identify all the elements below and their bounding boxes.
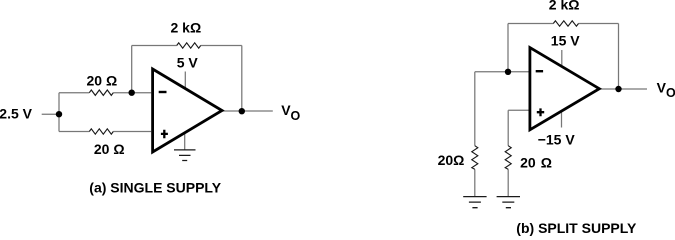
svg-text:O: O <box>666 86 675 100</box>
op-amp U2 triangle <box>530 48 599 130</box>
wire feedback left vertical <box>131 46 133 93</box>
op-amp U1 triangle <box>153 69 222 152</box>
op-amp U1 plus sign <box>161 130 168 139</box>
svg-text:20Ω: 20Ω <box>438 152 465 168</box>
svg-text:2.5 V: 2.5 V <box>0 105 33 121</box>
wire feedback top right <box>201 45 242 47</box>
wire -15V stem <box>561 111 563 128</box>
wire output to VO right circuit <box>599 88 647 90</box>
svg-text:20 Ω: 20 Ω <box>87 73 118 89</box>
svg-text:(a) SINGLE SUPPLY: (a) SINGLE SUPPLY <box>89 179 221 195</box>
node inverting input left circuit <box>129 90 135 96</box>
wire inverting input right circuit <box>475 71 529 73</box>
ground below R4 <box>497 197 520 208</box>
wire R3 vertical top <box>474 72 476 146</box>
wire R3 bottom to ground <box>474 169 476 196</box>
wire feedback left vertical right circuit <box>507 24 509 72</box>
resistor 20ohm bottom left <box>89 129 113 134</box>
wire input branch vertical <box>58 93 60 132</box>
wire R2 to noninverting input <box>113 131 151 133</box>
wire feedback right vertical right circuit <box>618 24 620 90</box>
node output left circuit <box>239 108 245 114</box>
wire 5V supply stem <box>184 72 186 90</box>
svg-text:Ω: Ω <box>541 155 552 171</box>
ground below R3 <box>463 197 486 208</box>
wire noninverting input right circuit <box>508 109 528 111</box>
svg-text:2 kΩ: 2 kΩ <box>549 0 580 13</box>
wire node to R2 <box>59 131 89 133</box>
resistor 20ohm vertical left (R3) <box>472 146 478 170</box>
wire feedback top right circuit <box>508 23 619 25</box>
svg-text:15 V: 15 V <box>551 33 580 49</box>
resistor 20ohm top left <box>89 90 113 95</box>
resistor 20ohm vertical right (R4) <box>505 146 511 170</box>
resistor 2kohm left circuit <box>177 43 201 48</box>
wire output to VO <box>222 110 273 112</box>
op-amp U1 minus sign <box>159 91 167 93</box>
op-amp U2 minus sign <box>536 70 543 72</box>
node inverting input right circuit <box>505 69 511 75</box>
wire R4 vertical top <box>507 110 509 145</box>
wire R4 bottom to ground <box>507 169 509 196</box>
wire 15V supply stem <box>561 50 563 67</box>
node output right circuit <box>615 86 621 92</box>
wire ground stem left opamp <box>184 132 186 150</box>
svg-text:O: O <box>291 109 301 123</box>
resistor 2kohm right circuit <box>553 21 578 26</box>
ground below left opamp <box>174 150 196 161</box>
svg-text:−15 V: −15 V <box>538 131 576 147</box>
svg-text:5 V: 5 V <box>177 55 199 71</box>
svg-text:2 kΩ: 2 kΩ <box>171 19 202 35</box>
wire feedback top left <box>132 45 177 47</box>
svg-text:(b) SPLIT SUPPLY: (b) SPLIT SUPPLY <box>516 220 637 236</box>
svg-text:20 Ω: 20 Ω <box>94 141 125 157</box>
wire R1 to inverting input <box>113 92 151 94</box>
wire node to R1 <box>59 92 89 94</box>
wire feedback right vertical <box>241 46 243 112</box>
wire input 2.5V to node <box>42 113 59 115</box>
op-amp U2 plus sign <box>537 108 544 116</box>
svg-text:20: 20 <box>520 155 536 171</box>
node input junction <box>56 111 62 117</box>
